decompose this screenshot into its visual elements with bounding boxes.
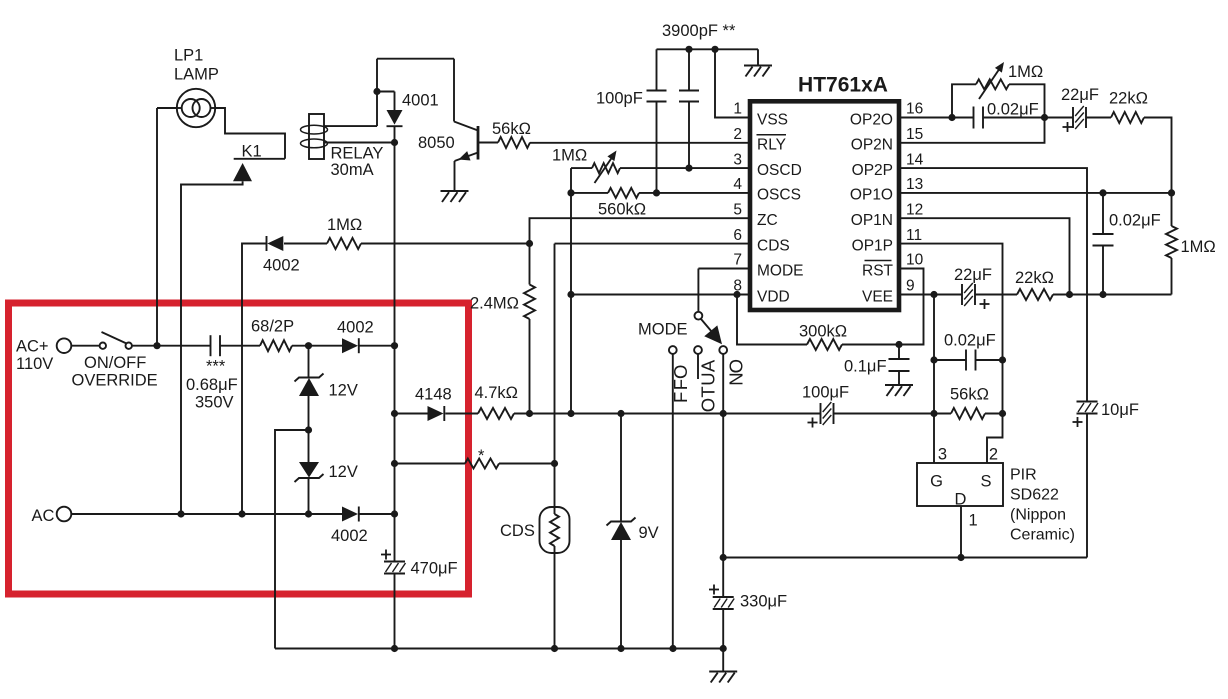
svg-text:F: F <box>670 379 691 390</box>
svg-text:HT761xA: HT761xA <box>798 74 888 97</box>
svg-text:4.7kΩ: 4.7kΩ <box>475 384 519 402</box>
svg-text:OP1O: OP1O <box>850 187 893 204</box>
svg-text:PIR: PIR <box>1010 467 1037 484</box>
svg-text:OP2P: OP2P <box>852 162 893 179</box>
svg-text:MODE: MODE <box>757 262 804 279</box>
svg-text:OP2O: OP2O <box>850 111 893 128</box>
svg-text:13: 13 <box>906 176 923 193</box>
svg-text:A: A <box>698 359 719 372</box>
svg-text:12V: 12V <box>329 463 358 481</box>
svg-text:N: N <box>726 372 747 385</box>
svg-text:K1: K1 <box>242 143 262 161</box>
svg-text:12: 12 <box>906 201 923 218</box>
svg-text:14: 14 <box>906 151 924 168</box>
svg-text:110V: 110V <box>16 355 53 373</box>
svg-text:22kΩ: 22kΩ <box>1015 269 1054 287</box>
svg-text:4148: 4148 <box>415 386 452 404</box>
svg-text:4001: 4001 <box>402 92 439 110</box>
svg-text:0.1μF: 0.1μF <box>844 358 887 376</box>
svg-text:SD622: SD622 <box>1010 487 1059 504</box>
svg-text:Ceramic): Ceramic) <box>1010 527 1075 544</box>
svg-text:O: O <box>726 359 747 373</box>
svg-text:F: F <box>670 392 691 403</box>
svg-text:VEE: VEE <box>862 288 893 305</box>
svg-text:OSCD: OSCD <box>757 162 802 179</box>
svg-text:68/2P: 68/2P <box>251 318 294 336</box>
svg-text:300kΩ: 300kΩ <box>799 323 847 341</box>
svg-text:CDS: CDS <box>757 237 790 254</box>
svg-text:9: 9 <box>906 278 915 295</box>
svg-text:U: U <box>698 372 719 385</box>
svg-text:*: * <box>478 447 485 465</box>
svg-text:RST: RST <box>862 262 894 279</box>
svg-text:T: T <box>698 386 719 397</box>
svg-text:AC: AC <box>32 507 55 525</box>
svg-text:AC+: AC+ <box>16 338 49 356</box>
svg-text:9V: 9V <box>639 524 659 542</box>
svg-text:OVERRIDE: OVERRIDE <box>72 372 158 390</box>
svg-text:30mA: 30mA <box>331 161 374 179</box>
svg-text:3: 3 <box>733 151 742 168</box>
svg-text:***: *** <box>206 358 226 376</box>
svg-text:22μF: 22μF <box>1061 86 1099 104</box>
svg-text:G: G <box>930 473 943 491</box>
svg-text:56kΩ: 56kΩ <box>950 386 989 404</box>
svg-text:1: 1 <box>733 101 742 118</box>
svg-text:10: 10 <box>906 252 924 269</box>
svg-text:22kΩ: 22kΩ <box>1109 90 1148 108</box>
svg-text:1MΩ: 1MΩ <box>1181 238 1216 256</box>
svg-text:3900pF **: 3900pF ** <box>662 22 736 40</box>
svg-text:LP1: LP1 <box>174 47 203 65</box>
svg-text:0.02μF: 0.02μF <box>987 101 1039 119</box>
svg-text:4002: 4002 <box>337 319 374 337</box>
svg-text:7: 7 <box>733 252 742 269</box>
svg-text:D: D <box>955 491 967 509</box>
svg-text:CDS: CDS <box>500 522 535 540</box>
svg-text:VSS: VSS <box>757 111 788 128</box>
svg-text:RELAY: RELAY <box>331 145 384 163</box>
svg-text:330μF: 330μF <box>740 593 787 611</box>
svg-text:1MΩ: 1MΩ <box>327 216 362 234</box>
svg-text:8: 8 <box>733 278 742 295</box>
svg-text:0.68μF: 0.68μF <box>186 376 238 394</box>
svg-text:OP1P: OP1P <box>852 237 893 254</box>
svg-text:MODE: MODE <box>638 321 688 339</box>
svg-text:4002: 4002 <box>263 257 300 275</box>
svg-text:6: 6 <box>733 227 742 244</box>
svg-text:56kΩ: 56kΩ <box>492 120 531 138</box>
svg-text:2: 2 <box>989 446 998 464</box>
svg-text:S: S <box>980 473 991 491</box>
svg-text:2.4MΩ: 2.4MΩ <box>470 295 519 313</box>
svg-text:1MΩ: 1MΩ <box>552 147 587 165</box>
svg-text:OSCS: OSCS <box>757 187 801 204</box>
svg-text:15: 15 <box>906 126 923 143</box>
svg-text:1MΩ: 1MΩ <box>1008 63 1043 81</box>
svg-text:LAMP: LAMP <box>174 66 219 84</box>
svg-text:ZC: ZC <box>757 212 778 229</box>
svg-text:0.02μF: 0.02μF <box>1109 212 1161 230</box>
svg-text:3: 3 <box>938 446 947 464</box>
svg-text:16: 16 <box>906 101 923 118</box>
svg-text:5: 5 <box>733 201 742 218</box>
svg-text:1: 1 <box>969 512 978 530</box>
svg-text:10μF: 10μF <box>1101 401 1139 419</box>
svg-text:560kΩ: 560kΩ <box>598 201 646 219</box>
svg-text:4: 4 <box>733 176 742 193</box>
svg-text:O: O <box>670 365 691 379</box>
svg-text:ON/OFF: ON/OFF <box>84 354 146 372</box>
svg-text:(Nippon: (Nippon <box>1010 507 1066 524</box>
svg-text:100μF: 100μF <box>802 384 849 402</box>
svg-text:RLY: RLY <box>757 137 786 154</box>
svg-text:350V: 350V <box>195 394 234 412</box>
svg-text:470μF: 470μF <box>411 560 458 578</box>
svg-text:12V: 12V <box>329 382 358 400</box>
svg-text:100pF: 100pF <box>596 90 643 108</box>
svg-text:OP2N: OP2N <box>851 137 893 154</box>
svg-text:2: 2 <box>733 126 742 143</box>
svg-text:OP1N: OP1N <box>851 212 893 229</box>
svg-text:4002: 4002 <box>331 527 368 545</box>
svg-text:22μF: 22μF <box>954 266 992 284</box>
svg-text:VDD: VDD <box>757 288 790 305</box>
svg-text:11: 11 <box>906 227 922 244</box>
svg-text:0.02μF: 0.02μF <box>944 332 996 350</box>
svg-text:O: O <box>698 398 719 412</box>
svg-text:8050: 8050 <box>418 134 455 152</box>
